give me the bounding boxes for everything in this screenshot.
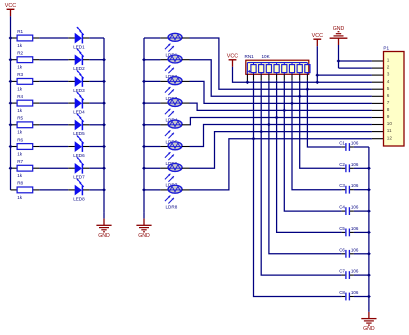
resistor R7 1k: [17, 159, 33, 178]
wire C7 to ground bus: [350, 274, 369, 276]
wire R2 anode row: [11, 59, 75, 61]
svg-text:C8: C8: [339, 290, 345, 295]
junction VCC rail row 5: [9, 123, 13, 127]
resistor R3 1k: [17, 72, 33, 91]
wire LDR1 left pin: [144, 37, 168, 39]
svg-text:3: 3: [387, 72, 390, 77]
svg-text:4: 4: [387, 79, 390, 84]
LED LED5: [73, 114, 85, 136]
svg-text:LED2: LED2: [73, 66, 85, 71]
wire R7 anode row: [11, 167, 75, 169]
photoresistor LDR1: [165, 33, 182, 57]
wire LED cathode bus: [103, 38, 105, 212]
svg-text:R1: R1: [17, 29, 23, 34]
junction LED bus row 3: [102, 80, 106, 84]
capacitor C2 106: [339, 162, 359, 172]
svg-text:106: 106: [351, 205, 359, 210]
svg-text:C3: C3: [339, 183, 345, 188]
svg-text:1k: 1k: [17, 65, 23, 70]
wire LED8 cathode: [83, 189, 104, 191]
resistor R8 1k: [17, 181, 33, 200]
capacitor C1 106: [339, 141, 359, 151]
svg-text:106: 106: [351, 247, 359, 252]
capacitor C7 106: [339, 269, 359, 279]
junction RN1 pin 8 node: [306, 87, 310, 91]
connector P1: [383, 45, 404, 146]
junction RN1 pin 5 node: [282, 109, 286, 113]
resistor R1 1k: [17, 29, 33, 48]
svg-text:C1: C1: [339, 141, 345, 146]
photoresistor LDR2: [165, 55, 182, 79]
svg-text:LED3: LED3: [73, 88, 85, 93]
wire LDR7 output: [182, 132, 384, 169]
svg-text:R2: R2: [17, 51, 23, 56]
wire C4 to ground bus: [350, 210, 369, 212]
svg-text:5: 5: [387, 86, 390, 91]
wire R1 anode row: [11, 37, 75, 39]
power VCC (left rail): [5, 3, 16, 16]
junction RN1 pin 6 node: [290, 102, 294, 106]
photoresistor LDR6: [165, 142, 182, 166]
svg-text:106: 106: [351, 269, 359, 274]
svg-text:GND: GND: [98, 233, 110, 239]
wire LED5 cathode: [83, 124, 104, 126]
LED LED1: [73, 27, 85, 49]
svg-text:106: 106: [351, 290, 359, 295]
svg-text:1k: 1k: [17, 130, 23, 135]
LED LED4: [73, 92, 85, 114]
LED LED8: [73, 179, 85, 201]
svg-text:R5: R5: [17, 116, 23, 121]
svg-text:1k: 1k: [17, 43, 23, 48]
wire RN1 pin 1 to C8: [254, 73, 346, 297]
svg-text:R4: R4: [17, 94, 23, 99]
wire GND to P1 pins 1 and 2: [339, 45, 384, 68]
junction VCC rail row 1: [9, 36, 13, 40]
wire capacitor ground bus: [368, 147, 370, 312]
photoresistor LDR8: [165, 185, 182, 209]
svg-text:1k: 1k: [17, 195, 23, 200]
junction LED bus row 6: [102, 145, 106, 149]
wire LDR5 left pin: [144, 124, 168, 126]
wire LED3 cathode: [83, 80, 104, 82]
wire RN1 pin 9 stub: [246, 74, 248, 82]
wire LDR7 left pin: [144, 167, 168, 169]
wire LDR2 left pin: [144, 59, 168, 61]
svg-text:106: 106: [351, 226, 359, 231]
junction VCC rail row 7: [9, 166, 13, 170]
svg-text:9: 9: [387, 114, 390, 119]
power VCC (P1): [312, 33, 323, 46]
svg-text:2: 2: [387, 65, 390, 70]
resistor R4 1k: [17, 94, 33, 113]
wire C3 to ground bus: [350, 189, 369, 191]
svg-text:12: 12: [387, 135, 393, 140]
svg-text:R6: R6: [17, 137, 23, 142]
junction VCC rail row 3: [9, 80, 13, 84]
svg-text:7: 7: [387, 100, 390, 105]
svg-text:RN1: RN1: [245, 54, 255, 59]
wire C6 to ground bus: [350, 253, 369, 255]
junction RN1 pin 7 node: [298, 94, 302, 98]
wire VCC to P1 pin 3: [317, 46, 383, 82]
wire LDR4 left pin: [144, 102, 168, 104]
photoresistor LDR5: [165, 120, 182, 144]
wire LED4 cathode: [83, 102, 104, 104]
svg-text:R3: R3: [17, 72, 23, 77]
ground GND (P1): [330, 26, 348, 45]
svg-text:C5: C5: [339, 226, 345, 231]
svg-text:1: 1: [387, 58, 390, 63]
junction cap bus C6: [367, 252, 371, 256]
power VCC (RN1 pull-up): [227, 54, 238, 67]
junction VCC rail row 2: [9, 58, 13, 62]
wire R4 anode row: [11, 102, 75, 104]
svg-text:C6: C6: [339, 247, 345, 252]
junction cap bus C3: [367, 188, 371, 192]
wire LDR6 left pin: [144, 146, 168, 148]
junction cap bus C7: [367, 273, 371, 277]
wire LED2 cathode: [83, 59, 104, 61]
svg-text:VCC: VCC: [5, 3, 16, 9]
svg-text:LED6: LED6: [73, 153, 85, 158]
wire LDR3 output: [182, 81, 384, 103]
junction cap bus C4: [367, 209, 371, 213]
junction LDR bus row 6: [142, 145, 146, 149]
junction RN1 pin 3 node: [267, 123, 271, 127]
wire R8 anode row: [11, 189, 75, 191]
svg-text:C2: C2: [339, 162, 345, 167]
wire LDR2 output: [182, 60, 384, 97]
junction LDR bus row 7: [142, 166, 146, 170]
photoresistor LDR4: [165, 98, 182, 122]
capacitor C5 106: [339, 226, 359, 236]
wire LDR1 output: [182, 38, 384, 89]
junction VCC pin 3: [315, 73, 319, 77]
svg-text:GND: GND: [363, 326, 375, 332]
wire VCC to RN1 common and P1 pin 4: [233, 67, 384, 82]
wire R6 anode row: [11, 146, 75, 148]
wire LDR3 left pin: [144, 80, 168, 82]
junction VCC at P1 pin 4 column: [315, 80, 319, 84]
junction cap bus C2: [367, 166, 371, 170]
svg-text:C7: C7: [339, 269, 345, 274]
junction LED bus row 5: [102, 123, 106, 127]
svg-text:LED7: LED7: [73, 175, 85, 180]
svg-text:LED1: LED1: [73, 44, 85, 49]
junction LED bus row 7: [102, 166, 106, 170]
wire RN1 pin 5 to C4: [284, 73, 345, 212]
svg-text:C4: C4: [339, 205, 345, 210]
svg-text:VCC: VCC: [227, 54, 238, 60]
wire RN1 pin 8 to C1: [307, 73, 345, 147]
svg-text:106: 106: [351, 162, 359, 167]
resistor R5 1k: [17, 116, 33, 135]
ground GND (LDR column): [136, 212, 151, 239]
junction cap bus C8: [367, 295, 371, 299]
LED LED6: [73, 136, 85, 158]
wire C2 to ground bus: [350, 167, 369, 169]
svg-text:1k: 1k: [17, 108, 23, 113]
wire RN1 pin 3 to C6: [269, 73, 345, 254]
capacitor C6 106: [339, 247, 359, 257]
svg-text:P1: P1: [383, 45, 389, 50]
svg-text:106: 106: [351, 141, 359, 146]
junction VCC rail row 4: [9, 101, 13, 105]
LED LED2: [73, 49, 85, 71]
svg-text:LED8: LED8: [73, 196, 85, 201]
wire LDR4 output: [182, 103, 384, 110]
junction RN1 pin 4 node: [275, 116, 279, 120]
resistor R2 1k: [17, 51, 33, 70]
junction LED bus row 8: [102, 188, 106, 192]
svg-text:10K: 10K: [262, 54, 271, 59]
svg-text:10: 10: [387, 121, 393, 126]
wire LDR8 output: [182, 139, 384, 190]
wire LED1 cathode: [83, 37, 104, 39]
svg-text:VCC: VCC: [312, 33, 323, 39]
svg-text:R7: R7: [17, 159, 23, 164]
junction LDR bus row 4: [142, 101, 146, 105]
capacitor C8 106: [339, 290, 359, 300]
svg-text:1k: 1k: [17, 86, 23, 91]
wire LDR left bus: [143, 38, 145, 212]
svg-text:8: 8: [387, 107, 390, 112]
wire LDR8 left pin: [144, 189, 168, 191]
wire C8 to ground bus: [350, 296, 369, 298]
junction GND pin 1: [337, 59, 341, 63]
svg-text:106: 106: [351, 183, 359, 188]
LED LED7: [73, 157, 85, 179]
wire C5 to ground bus: [350, 231, 369, 233]
ground GND (capacitors): [361, 312, 376, 332]
junction VCC rail row 6: [9, 145, 13, 149]
LED LED3: [73, 70, 85, 92]
photoresistor LDR3: [165, 77, 182, 101]
junction RN1 pin 1 node: [252, 137, 256, 141]
ground GND (LED column): [96, 212, 111, 239]
wire LED7 cathode: [83, 167, 104, 169]
svg-text:GND: GND: [138, 233, 150, 239]
svg-text:LED4: LED4: [73, 110, 85, 115]
junction RN1 common pin 9: [246, 80, 250, 84]
svg-text:LED5: LED5: [73, 131, 85, 136]
wire RN1 pin 6 to C3: [292, 73, 345, 190]
capacitor C3 106: [339, 183, 359, 193]
junction RN1 pin 2 node: [259, 130, 263, 134]
junction LDR bus row 2: [142, 58, 146, 62]
svg-text:LDR8: LDR8: [166, 204, 178, 209]
resistor network RN1 10K: [245, 54, 311, 74]
wire RN1 pin 7 to C2: [300, 73, 346, 169]
junction LDR bus row 3: [142, 80, 146, 84]
wire LDR5 output: [182, 118, 384, 125]
svg-text:R8: R8: [17, 181, 23, 186]
wire LED6 cathode: [83, 146, 104, 148]
wire LDR6 output: [182, 125, 384, 147]
resistor R6 1k: [17, 137, 33, 156]
svg-text:11: 11: [387, 128, 392, 133]
junction LDR bus row 8: [142, 188, 146, 192]
wire RN1 pin 4 to C5: [277, 73, 346, 233]
svg-text:1k: 1k: [17, 151, 23, 156]
wire R5 anode row: [11, 124, 75, 126]
junction cap bus C5: [367, 231, 371, 235]
junction LDR bus row 5: [142, 123, 146, 127]
wire RN1 pin 2 to C7: [261, 73, 345, 276]
wire R3 anode row: [11, 80, 75, 82]
wire C1 to ground bus: [350, 146, 369, 148]
wire VCC rail vertical bus: [10, 16, 12, 190]
photoresistor LDR7: [165, 164, 182, 188]
capacitor C4 106: [339, 205, 359, 215]
junction LED bus row 2: [102, 58, 106, 62]
svg-text:6: 6: [387, 93, 390, 98]
svg-text:1k: 1k: [17, 173, 23, 178]
junction LED bus row 4: [102, 101, 106, 105]
